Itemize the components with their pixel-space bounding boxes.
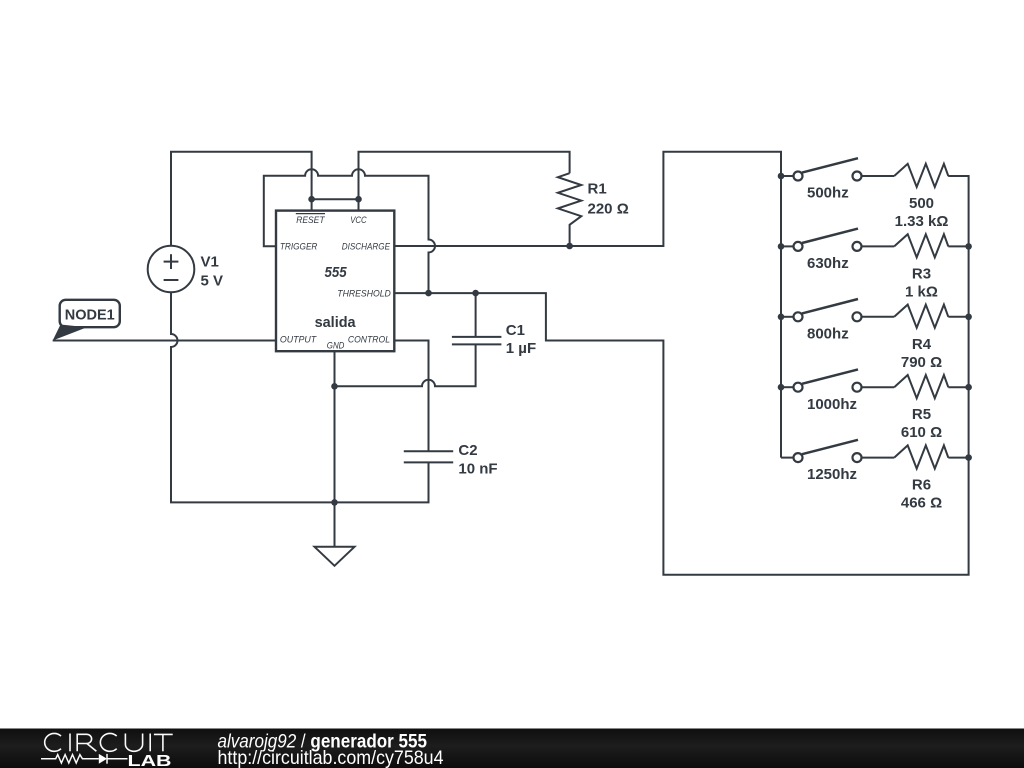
svg-text:NODE1: NODE1 xyxy=(65,307,115,324)
svg-text:220 Ω: 220 Ω xyxy=(588,201,629,218)
svg-text:555: 555 xyxy=(325,264,348,281)
svg-text:R6: R6 xyxy=(912,477,931,494)
svg-text:VCC: VCC xyxy=(350,215,367,225)
svg-text:500: 500 xyxy=(909,195,934,212)
svg-text:10 nF: 10 nF xyxy=(458,460,497,477)
svg-text:DISCHARGE: DISCHARGE xyxy=(342,242,391,252)
svg-text:800hz: 800hz xyxy=(807,325,849,342)
svg-text:R5: R5 xyxy=(912,406,931,423)
svg-text:500hz: 500hz xyxy=(807,185,849,202)
svg-text:R1: R1 xyxy=(588,181,607,198)
svg-text:1.33 kΩ: 1.33 kΩ xyxy=(895,213,949,230)
svg-text:TRIGGER: TRIGGER xyxy=(280,242,318,252)
svg-text:1250hz: 1250hz xyxy=(807,466,857,483)
svg-text:5 V: 5 V xyxy=(201,272,224,289)
svg-text:610 Ω: 610 Ω xyxy=(901,424,942,441)
svg-text:R4: R4 xyxy=(912,336,932,353)
svg-text:1 µF: 1 µF xyxy=(506,340,536,357)
svg-text:C2: C2 xyxy=(458,442,477,459)
svg-text:RESET: RESET xyxy=(296,215,326,225)
svg-text:1000hz: 1000hz xyxy=(807,396,857,413)
svg-text:http://circuitlab.com/cy758u4: http://circuitlab.com/cy758u4 xyxy=(218,747,444,768)
svg-text:CONTROL: CONTROL xyxy=(348,335,390,345)
svg-text:R3: R3 xyxy=(912,265,931,282)
svg-text:630hz: 630hz xyxy=(807,255,849,272)
svg-text:LAB: LAB xyxy=(128,753,172,768)
svg-text:1 kΩ: 1 kΩ xyxy=(905,283,938,300)
svg-text:salida: salida xyxy=(315,314,357,331)
svg-text:V1: V1 xyxy=(201,254,219,271)
svg-text:790 Ω: 790 Ω xyxy=(901,354,942,371)
svg-text:466 Ω: 466 Ω xyxy=(901,495,942,512)
svg-text:C1: C1 xyxy=(506,322,525,339)
svg-text:GND: GND xyxy=(327,340,345,350)
svg-text:OUTPUT: OUTPUT xyxy=(280,335,318,345)
svg-text:THRESHOLD: THRESHOLD xyxy=(337,288,391,298)
